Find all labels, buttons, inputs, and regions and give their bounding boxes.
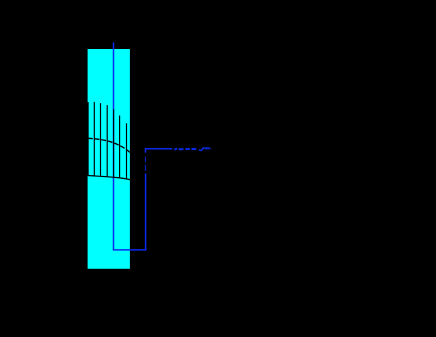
wire blue right vertical dashed top [145,157,147,172]
hatch line 2 [93,102,95,176]
bottom curve [88,176,130,180]
hatch line 5 over wire [113,109,115,177]
wire blue right vertical solid [145,174,147,251]
middle dashed curve [88,138,131,153]
hatch line 3 [100,103,102,176]
hatch line 6 [119,116,121,178]
wire blue bottom horizontal [113,249,147,251]
cyan column [88,49,130,269]
hatch line 1 [87,102,89,176]
wire blue top horizontal dashes [174,147,211,151]
wire blue corner top [146,149,173,153]
hatch line 4 [106,105,108,177]
hatch line 7 [126,123,128,179]
wire blue vertical left [113,42,115,250]
